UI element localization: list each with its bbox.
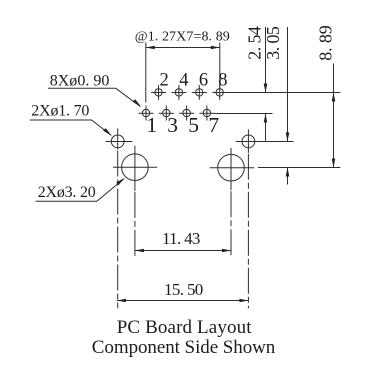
arrowhead 11.43 left [135, 249, 144, 253]
dimension 3.05 line lower [287, 168, 289, 185]
arrowhead 15.50 right [239, 299, 248, 303]
extension line mounting-hole row [258, 167, 340, 169]
svg-text:8: 8 [218, 70, 227, 90]
dimension 3.05 line upper [287, 27, 289, 142]
hole 1.70 left [106, 128, 133, 149]
svg-text:7: 7 [208, 113, 219, 137]
arrowhead leader 1.70 [103, 128, 112, 136]
svg-text:3. 05: 3. 05 [263, 26, 283, 60]
arrowhead 2.54 down [264, 84, 268, 93]
pin 1 [139, 106, 154, 121]
arrowhead 15.50 left [117, 299, 126, 303]
svg-text:8Xø0. 90: 8Xø0. 90 [50, 73, 110, 90]
arrowhead leader 0.90 [133, 99, 142, 107]
arrowhead 11.43 right [222, 249, 231, 253]
pin 6 [192, 85, 207, 100]
hole 3.20 left [113, 146, 157, 191]
dimension 2.54 line upper [265, 27, 267, 93]
arrowhead 8.89 up [332, 93, 336, 102]
svg-text:5: 5 [188, 113, 199, 137]
centerline below hole 3.20 right [230, 191, 232, 257]
dimension 8.89 line [333, 64, 335, 168]
svg-text:2: 2 [160, 70, 169, 90]
svg-text:3: 3 [167, 113, 178, 137]
svg-text:1: 1 [146, 113, 157, 137]
svg-text:6: 6 [199, 70, 208, 90]
dimension @1.27X7=8.89 extension line at pin 1 [145, 43, 147, 103]
dimension @1.27X7=8.89 extension line at pin 8 [219, 43, 221, 88]
pin 8 [212, 85, 227, 100]
svg-text:2. 54: 2. 54 [244, 26, 264, 60]
pin 3 [159, 106, 174, 121]
centerline below hole 3.20 left [134, 192, 136, 258]
pin 2 [151, 85, 166, 100]
svg-text:PC Board Layout: PC Board Layout [117, 317, 253, 338]
svg-text:2Xø3. 20: 2Xø3. 20 [38, 184, 96, 201]
hole 1.70 right [236, 129, 258, 153]
arrowhead 8.89 down [332, 159, 336, 168]
svg-text:8. 89: 8. 89 [316, 25, 336, 61]
arrowhead 2.54 up [264, 114, 268, 123]
extension line top pin row [227, 92, 340, 94]
hole 3.20 right [210, 148, 254, 190]
leader 8X0.90 [48, 88, 140, 106]
dimension 2.54 line lower [265, 114, 267, 141]
arrowhead 3.05 down [286, 133, 290, 142]
svg-text:Component Side Shown: Component Side Shown [92, 337, 276, 358]
pin 4 [171, 85, 186, 100]
leader 2X3.20 [36, 179, 124, 201]
centerline below hole 1.70 right [247, 154, 249, 308]
dimension @1.27X7=8.89 dimension line [146, 47, 220, 49]
extension line shield-hole row [236, 141, 294, 143]
svg-text:15. 50: 15. 50 [164, 280, 203, 299]
pin 7 [199, 106, 214, 121]
arrowhead 3.05 up [286, 168, 290, 177]
arrowhead leader 3.20 [116, 178, 125, 186]
svg-text:4: 4 [179, 70, 188, 90]
leader 2X1.70 [30, 120, 111, 135]
dimension 11.43 line [135, 250, 231, 252]
arrowhead top-dim left [146, 46, 155, 50]
svg-text:11. 43: 11. 43 [162, 229, 200, 248]
svg-text:@1. 27X7=8. 89: @1. 27X7=8. 89 [135, 29, 230, 44]
centerline below hole 1.70 left [117, 151, 119, 309]
dimension 15.50 line [117, 300, 249, 302]
arrowhead top-dim right [211, 46, 220, 50]
extension line bottom pin row [214, 113, 272, 115]
pin 5 [179, 106, 194, 121]
svg-text:2Xø1. 70: 2Xø1. 70 [31, 103, 89, 120]
